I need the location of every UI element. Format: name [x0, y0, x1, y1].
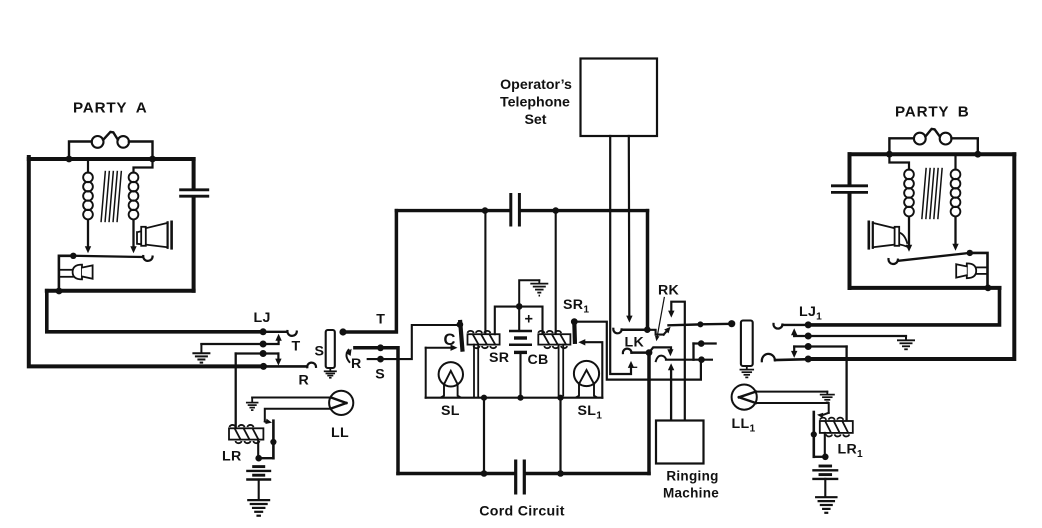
svg-text:CB: CB [528, 352, 549, 368]
ringer gong left, Party A [92, 136, 104, 148]
wire lamp branch with arrow to contact C [426, 347, 453, 349]
wire relay SR leads down to lamp bus [473, 345, 475, 397]
relay LR1 winding [820, 421, 853, 433]
svg-text:Operator’s: Operator’s [500, 77, 572, 93]
ground at lamp LL [246, 402, 259, 404]
wire jack LJ1 ring to Party B right rail [808, 154, 1014, 359]
Party A bottom wire [47, 289, 194, 293]
wire secondary bottom lead with contact arrow [132, 221, 134, 248]
wire relay SR1 leads down to lamp bus [558, 345, 560, 397]
svg-text:Set: Set [524, 112, 546, 128]
wire induction-coil secondary top lead [134, 159, 153, 173]
wire lamp LL1 upper lead to ground [756, 391, 828, 393]
svg-text:Cord Circuit: Cord Circuit [479, 504, 565, 520]
lamp bus wire [426, 397, 603, 399]
wire capacitor to bottom [192, 198, 196, 291]
capacitor, Party A line capacitor [179, 188, 209, 191]
Party B left branch wire (to capacitor) [848, 154, 852, 184]
svg-text:SL: SL [441, 403, 460, 419]
wire cord tip conductor (T) to top rail [343, 211, 396, 332]
wire lamp LL upper lead to ground [252, 397, 331, 399]
svg-text:RK: RK [658, 283, 680, 299]
node ringer-right junction (B) [974, 151, 981, 158]
ringer clapper armature, Party A [103, 132, 118, 140]
wire lamp bus to bottom rail (right) [559, 398, 561, 474]
svg-text:LR: LR [222, 449, 242, 465]
key RK lower contact row D [666, 359, 712, 361]
svg-text:R: R [299, 373, 310, 389]
wire right coil bottom lead with arrow (B) [954, 218, 956, 246]
supervisory lamp SL [439, 362, 463, 386]
ringer gong right, Party A [117, 136, 129, 148]
contact bar at relay SR1 [572, 322, 577, 342]
induction coil primary winding, Party A [83, 173, 93, 183]
node sleeve contact C1 (right) [571, 318, 578, 325]
node battery CB top junction [516, 303, 523, 310]
capacitor, Party B line capacitor [831, 184, 868, 187]
jack LJ1 spring arrow down (row3 to row4) [793, 347, 795, 354]
svg-text:T: T [376, 312, 385, 328]
induction coil right winding, Party B [951, 170, 961, 180]
wire capacitor to bottom (Party B) [848, 194, 852, 288]
cord ring spring curved arrow R [346, 350, 349, 362]
cord circuit right rail down to key LK [646, 211, 650, 330]
battery at LR1 [819, 465, 833, 468]
Party A tip wire down to jack LJ [47, 291, 263, 332]
wire primary bottom lead with contact arrow [87, 221, 89, 248]
contact bar C [460, 322, 462, 350]
wire hook junction to transmitter branch (B) [970, 253, 988, 288]
line lamp LL1 [732, 385, 757, 410]
wire lamp LL1 lower lead [756, 403, 829, 413]
jack LJ1 ring contact (row 4) [762, 354, 775, 361]
jack LJ1 sleeve contact row 3 [805, 343, 812, 350]
jack LJ1 tip contact (row 1) [773, 324, 782, 329]
svg-text:LL: LL [331, 425, 349, 441]
node lamp bus battery junction [517, 395, 523, 401]
hook switch lever wire, Party A [73, 256, 143, 257]
battery CB [518, 306, 520, 331]
svg-text:+: + [525, 312, 534, 328]
capacitor in tip conductor (top) [509, 193, 512, 227]
induction coil secondary winding, Party A [129, 173, 139, 183]
ground below LR battery [247, 499, 270, 501]
jack LJ ring contact (row 4) [260, 363, 267, 370]
cord circuit top rail (tip side) [396, 209, 509, 212]
wire ringer right lead (B) [952, 138, 978, 154]
node ringer-left junction [66, 156, 73, 163]
plug (operator cord plug, right) [741, 321, 753, 367]
operator's telephone set box [581, 59, 658, 137]
ground at jack LJ1 row 2 [905, 336, 907, 340]
jack LJ1 spring arrow up (row2 to row1) [793, 333, 795, 336]
relay SR winding [468, 334, 500, 344]
node cord terminal toward plug (right) [728, 320, 735, 327]
key LK lower fixed contact [623, 349, 632, 354]
node lamp bus right junction [557, 395, 563, 401]
hook switch hook, Party B [888, 259, 897, 264]
receiver (earpiece horn), Party A [137, 231, 141, 244]
node cord sleeve terminal S [377, 356, 384, 363]
subscriber set Party A enclosure top wire [29, 157, 194, 161]
wire top rail down to relay SR1 winding [555, 211, 557, 335]
wire top rail down to relay SR winding [484, 211, 486, 335]
wire SR1 node to ring key row D (sleeve lead) [574, 322, 701, 380]
node ringer-left junction (B) [886, 151, 893, 158]
relay LR winding [229, 428, 263, 439]
lamp LL1 armature arrow [824, 413, 829, 415]
wire ringer right lead [129, 142, 153, 160]
wire row C down to row D [692, 344, 694, 360]
wire armature to battery junction (right) [814, 456, 826, 458]
transmitter (mouthpiece), Party A [59, 269, 73, 271]
node LK lower contact [646, 349, 653, 356]
ringing machine lead 1 with arrow at RK [671, 302, 685, 421]
key RK lower contact row C [694, 342, 716, 344]
subscriber set Party B enclosure top wire [850, 152, 1015, 156]
ground at plug S [329, 368, 331, 371]
wire jack LJ sleeve down to relay LR [235, 354, 237, 429]
capacitor in ring conductor (bottom) [514, 460, 517, 495]
line lamp LL [329, 391, 353, 415]
wire cord ring conductor (R) to bottom rail [355, 348, 398, 474]
node lamp bus left junction [481, 395, 487, 401]
wire induction-coil right top lead (B) [954, 154, 956, 169]
svg-text:SR: SR [489, 350, 509, 366]
wire jack LJ1 tip to Party B [808, 288, 999, 325]
ground at jack LJ row 2 [200, 344, 202, 353]
node top rail to relay SR [482, 207, 489, 214]
induction coil left winding, Party B [904, 170, 914, 180]
key RK lower spring curl [656, 356, 666, 362]
jack LJ spring arrow up (row2 to row1) [263, 339, 279, 345]
node sleeve contact C top [457, 321, 464, 328]
wire cord sleeve conductor (S) [368, 325, 460, 359]
wire left coil bottom lead with arrow (B) [908, 218, 910, 247]
minus tick at LK spring [633, 366, 637, 368]
ringer gong right, Party B [940, 133, 952, 145]
jack LJ contact row 2 with ground [201, 343, 263, 345]
operator set lead wire 1 (to key LK lower spring) [610, 136, 631, 374]
node LR1 battery junction [822, 454, 829, 461]
Party B bottom wire [850, 286, 1000, 290]
node Party A bottom junction [56, 288, 63, 295]
ground below LR1 battery [815, 496, 838, 498]
ringing machine box [656, 421, 704, 464]
wire ringer left lead [69, 142, 92, 160]
wire jack LJ1 sleeve down to relay LR1 [845, 347, 847, 422]
hook switch hook, Party A [143, 256, 152, 261]
svg-text:Ringing: Ringing [666, 469, 718, 484]
operator set lead wire 2 with arrow to key LK upper contact [628, 136, 631, 316]
svg-text:R: R [351, 356, 362, 372]
wire bottom rail up to key LK lower contact [647, 353, 651, 474]
wire induction-coil left top lead (B) [889, 154, 909, 169]
svg-text:S: S [375, 367, 385, 383]
induction coil core, Party A [101, 172, 105, 222]
node Party B bottom junction [985, 285, 992, 292]
cord circuit bottom rail (ring side) [398, 472, 514, 476]
relay SR1 winding [538, 334, 570, 344]
node hook-switch left junction [70, 253, 76, 259]
receiver (earpiece horn), Party B [899, 233, 907, 247]
key RK spring from LK lower contact with arrow [649, 347, 671, 352]
svg-text:S: S [315, 344, 325, 360]
wire induction-coil primary top lead [87, 159, 89, 173]
Party A outer loop wire to jack LJ ring (left vertical + run) [29, 157, 264, 366]
svg-text:PARTY B: PARTY B [895, 104, 970, 121]
lamp LL armature arrow [265, 421, 267, 424]
jack LJ sleeve contact row 3 [236, 352, 279, 354]
jack LJ spring arrow down (row3 to row4) [277, 354, 279, 361]
svg-text:LJ: LJ [254, 310, 271, 326]
ringer clapper armature, Party B [926, 129, 940, 137]
ground at lamp LL1 [820, 394, 835, 396]
jack LJ tip contact (row 1) [260, 328, 267, 335]
key LK upper spring to RK with arrow [647, 330, 663, 335]
svg-text:Machine: Machine [663, 485, 719, 500]
node hook-switch junction (B) [967, 250, 973, 256]
node top rail to relay SR1 [552, 207, 559, 214]
wire armature to battery junction [259, 457, 274, 459]
node cord ring terminal R [377, 344, 384, 351]
ground at right plug [746, 366, 748, 369]
Party A right branch wire (to capacitor) [192, 159, 196, 188]
wire battery junction to relay SR1 [519, 307, 542, 335]
induction coil core, Party B [922, 169, 926, 219]
ringer gong left, Party B [914, 133, 926, 145]
supervisory lamp SL1 [574, 361, 599, 386]
key RK upper contact row [669, 323, 701, 326]
wire ringer left lead (B) [889, 138, 913, 154]
wire relay LR1 lead down [824, 433, 826, 457]
wire hook junction to transmitter branch [59, 256, 73, 291]
ringing machine lead 2 with arrow at RK [670, 368, 672, 420]
ground above battery CB [538, 280, 540, 283]
wire battery junction to ground [519, 280, 539, 306]
wire lamp LL lower lead [265, 409, 331, 422]
node ringer-right junction [149, 156, 156, 163]
transmitter (mouthpiece), Party B [976, 266, 988, 268]
svg-text:Telephone: Telephone [500, 95, 570, 111]
relay SR1 armature arrow from lamp bus [585, 342, 603, 398]
svg-text:T: T [292, 339, 301, 355]
battery at LR [252, 465, 265, 468]
node LK upper contact [644, 326, 651, 333]
svg-text:PARTY A: PARTY A [73, 100, 148, 117]
wire lamp bus to bottom rail (left) [483, 398, 485, 474]
node cord tip terminal T [339, 328, 346, 335]
wire relay LR lead down [257, 440, 259, 459]
hook switch lever wire, Party B [898, 253, 970, 261]
key LK upper fixed contact [613, 329, 621, 334]
pointer line from RK label [657, 298, 664, 337]
relay LR armature wire [272, 421, 275, 459]
relay LR1 armature wire [812, 412, 815, 457]
node LR battery junction [255, 455, 262, 462]
wire relay SR to battery junction [495, 307, 519, 335]
plug S (operator cord plug, left) [326, 330, 335, 368]
jack LJ1 contact row 2 with ground [805, 333, 812, 340]
